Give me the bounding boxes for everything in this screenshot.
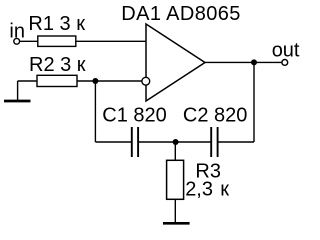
svg-text:in: in [9, 20, 25, 42]
wire junction C down to R3 [174, 142, 176, 160]
wire R2 to inverting input bubble [77, 80, 142, 82]
node junction A (R2 / feedback) [92, 78, 98, 84]
wire C2 to C1 (feedback line) [138, 141, 211, 143]
inverting input bubble [142, 77, 150, 85]
svg-text:C1 820: C1 820 [102, 104, 167, 126]
svg-text:C2 820: C2 820 [183, 104, 248, 126]
wire input terminal to R1 [20, 40, 38, 42]
ground (bottom) [163, 222, 190, 225]
resistor R2 [37, 75, 77, 86]
wire to C2 right plate [218, 141, 254, 143]
node junction B (output) [251, 59, 257, 65]
resistor R3 [167, 160, 184, 199]
node junction C (R3 tap) [173, 139, 179, 145]
svg-text:2,3: 2,3 [185, 179, 213, 201]
wire R2 left lead [18, 80, 37, 82]
svg-text:R1 3 к: R1 3 к [28, 13, 85, 35]
svg-text:out: out [272, 40, 300, 62]
svg-text:DA1 AD8065: DA1 AD8065 [121, 3, 240, 25]
capacitor C1 [132, 127, 138, 157]
wire C1 left plate to vertical feedback riser [95, 141, 131, 143]
node out (output terminal) [282, 60, 288, 66]
svg-text:к: к [220, 179, 229, 201]
wire op-amp output [205, 61, 282, 63]
wire down to left ground [17, 81, 19, 101]
resistor R1 [38, 36, 76, 46]
wire R1 to op-amp non-inverting input [76, 40, 146, 42]
ground (left) [4, 100, 31, 103]
wire output junction down [253, 62, 255, 142]
wire R3 to bottom ground [174, 199, 176, 222]
op-amp DA1 [146, 24, 205, 101]
capacitor C2 [211, 127, 217, 157]
svg-text:R2 3 к: R2 3 к [29, 54, 86, 76]
wire junction A down to feedback line [94, 81, 96, 142]
node in (input terminal) [14, 38, 20, 44]
